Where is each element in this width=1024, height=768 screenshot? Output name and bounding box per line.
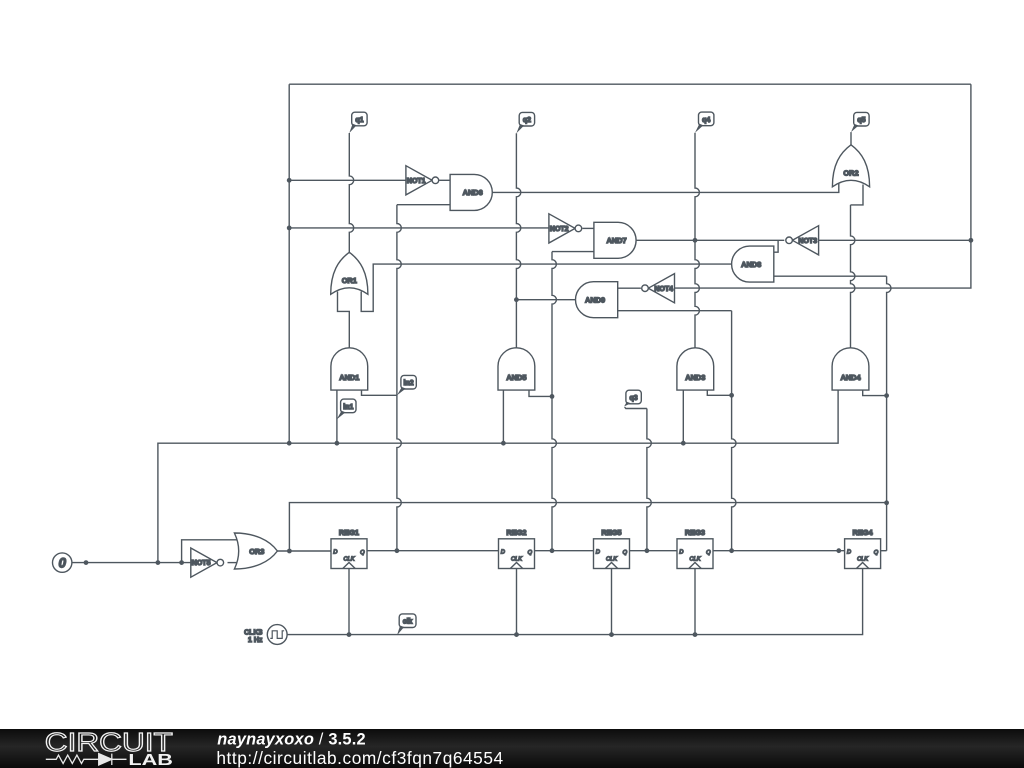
wire AND7 input2 / REG2.Q vertical: [552, 251, 594, 253]
logo resistor-diode squiggle: [46, 754, 127, 765]
svg-text:1 Hz: 1 Hz: [248, 637, 263, 644]
flag clk: [399, 614, 416, 628]
not-gate NOT1: [406, 166, 432, 195]
svg-text:REG1: REG1: [339, 528, 359, 537]
and-gate AND1: [331, 348, 368, 390]
svg-text:D: D: [333, 550, 337, 556]
wire AND8 output to OR1 input2: [361, 264, 731, 311]
wire bus to NOT2 input: [289, 227, 549, 229]
wire AND3 input2 hook: [707, 390, 731, 395]
svg-text:in1: in1: [343, 404, 353, 411]
wire NOT3 input to right border: [819, 239, 971, 241]
node 0 terminal: [53, 553, 72, 572]
svg-text:AND9: AND9: [585, 296, 605, 305]
svg-text:OR2: OR2: [843, 168, 858, 177]
svg-text:Q: Q: [360, 550, 365, 556]
svg-text:NOT2: NOT2: [550, 226, 569, 233]
wire AND9 output to q2 net: [516, 299, 575, 301]
not-gate NOT4: [648, 274, 674, 303]
wire AND7 output to NOT3 bubble: [636, 239, 784, 241]
node junction REG2.Q: [550, 548, 555, 553]
svg-text:NOT1: NOT1: [407, 178, 426, 185]
wire clk bus: [287, 569, 863, 635]
flag in2: [401, 375, 416, 389]
svg-text:clk: clk: [403, 619, 413, 626]
wire AND3 input1 drop: [682, 390, 684, 443]
wire REG5 clk drop: [611, 569, 613, 635]
svg-text:Q: Q: [623, 550, 628, 556]
node junction node0/OR3 bypass: [179, 560, 184, 565]
svg-text:http://circuitlab.com/cf3fqn7q: http://circuitlab.com/cf3fqn7q64554: [216, 748, 503, 768]
svg-text:D: D: [847, 550, 851, 556]
svg-text:AND6: AND6: [463, 188, 483, 197]
wire q1 net vertical to OR1 output: [349, 133, 353, 252]
svg-text:naynayxoxo / 3.5.2: naynayxoxo / 3.5.2: [217, 730, 365, 748]
svg-text:q5: q5: [857, 117, 865, 124]
not-gate NOT2: [549, 214, 575, 243]
or-gate OR3: [234, 533, 277, 569]
wire AND8 input2 / REG4.Q vertical: [774, 275, 887, 277]
wire REG1 clk drop: [348, 569, 350, 635]
svg-text:q4: q4: [702, 117, 710, 124]
svg-text:D: D: [679, 550, 683, 556]
flag q5: [854, 112, 869, 126]
wire OR3 output to REG1.D: [277, 550, 331, 552]
not-gate NOT3: [792, 226, 818, 255]
flip-flop REG1: [331, 539, 367, 569]
wire REG3.Q to REG4.D: [713, 550, 845, 552]
wire NOT5 output to OR3 input2: [228, 562, 241, 564]
wire bus502 OR3 output distribution: [289, 503, 886, 551]
node junction before REG4.D: [836, 548, 841, 553]
footer bar: [0, 729, 1024, 768]
node junction AND5 input2 tap: [550, 394, 555, 399]
svg-text:REG3: REG3: [685, 528, 705, 537]
svg-text:Q: Q: [528, 550, 533, 556]
svg-text:AND7: AND7: [606, 236, 626, 245]
node junction left-border/bus443: [287, 441, 292, 446]
wire q5 net to OR2 output: [850, 132, 852, 145]
wire NOT3 output jog to AND8 input1: [774, 240, 778, 252]
svg-text:CLK3: CLK3: [244, 629, 262, 636]
svg-text:0: 0: [58, 555, 66, 570]
flag q4: [699, 112, 714, 126]
and-gate AND9: [576, 282, 618, 318]
svg-text:q3: q3: [630, 395, 638, 402]
wire AND6 input2 / REG1.Q vertical: [397, 204, 450, 206]
node junction AND5 input1/bus443: [501, 441, 506, 446]
wire OR1 input1 from AND1 output: [338, 292, 350, 348]
wire REG2 clk drop: [516, 569, 518, 635]
node junction AND4 input2 tap: [884, 393, 889, 398]
wire AND1 input2 hook: [362, 390, 397, 395]
node junction bus502/REG4 net: [884, 500, 889, 505]
node junction node0/bus443 riser: [156, 560, 161, 565]
wire AND6 output to OR2 input1: [492, 184, 839, 193]
flip-flop REG3: [677, 539, 713, 569]
and-gate AND5: [498, 348, 535, 390]
svg-text:LAB: LAB: [128, 752, 173, 768]
node junction node0 stub: [84, 560, 89, 565]
flip-flop REG5: [594, 539, 630, 569]
not-gate NOT5: [191, 548, 217, 577]
wire NOT2 output to AND7 input1: [582, 227, 594, 229]
wire top bus: [289, 83, 971, 85]
node junction REG5 clk: [609, 632, 614, 637]
wire NOT1 output to AND6 input1: [439, 179, 450, 181]
node junction left-border/bus1: [287, 178, 292, 183]
flip-flop REG2: [499, 539, 535, 569]
node junction AND1 input1/bus443: [335, 441, 340, 446]
wire bus443 main: [158, 390, 838, 562]
svg-text:AND5: AND5: [506, 373, 526, 382]
wire AND1 input1 drop: [336, 390, 338, 443]
and-gate AND8: [732, 246, 774, 282]
wire REG3 clk drop: [694, 569, 696, 635]
svg-text:q2: q2: [523, 117, 531, 124]
svg-text:AND1: AND1: [339, 373, 359, 382]
node junction right-border/NOT3 input: [969, 238, 974, 243]
and-gate AND6: [450, 174, 492, 210]
node junction REG5.Q: [645, 548, 650, 553]
node junction REG2 clk: [514, 632, 519, 637]
svg-text:Q: Q: [706, 550, 711, 556]
svg-text:q1: q1: [355, 117, 363, 124]
svg-text:D: D: [501, 550, 505, 556]
svg-text:D: D: [596, 550, 600, 556]
wire AND5 input2 hook: [529, 390, 552, 396]
node junction REG1 clk: [347, 632, 352, 637]
svg-text:OR1: OR1: [342, 276, 357, 285]
or-gate OR2: [832, 145, 869, 187]
node junction REG3 clk: [693, 632, 698, 637]
svg-text:REG2: REG2: [506, 528, 526, 537]
wire AND9 input1 to NOT4 bubble: [618, 287, 641, 289]
flag q3: [626, 390, 641, 404]
svg-text:in2: in2: [404, 380, 414, 387]
wire OR3 input1 bypass: [182, 540, 240, 563]
and-gate AND7: [594, 222, 636, 258]
svg-text:NOT4: NOT4: [654, 286, 673, 293]
node junction AND9-out/q2 net: [514, 297, 519, 302]
svg-text:NOT5: NOT5: [192, 560, 211, 567]
and-gate AND4: [832, 348, 869, 390]
svg-text:AND3: AND3: [685, 373, 705, 382]
wire OR2 input2 from AND4 output: [851, 185, 864, 205]
node junction left-border/bus2: [287, 226, 292, 231]
svg-text:REG4: REG4: [853, 528, 874, 537]
wire REG1.Q to REG2.D: [367, 550, 499, 552]
svg-text:OR3: OR3: [249, 547, 264, 556]
node junction AND3 input2 tap: [729, 393, 734, 398]
wire q2 net vertical to AND5 output: [516, 133, 520, 348]
wire REG2.Q to REG5.D: [535, 550, 594, 552]
svg-text:AND8: AND8: [741, 260, 761, 269]
wire bus to NOT1 input: [289, 179, 406, 181]
wire AND9 input2 / REG3.Q vertical: [618, 310, 732, 312]
svg-text:NOT3: NOT3: [798, 238, 817, 245]
clock source CLK3 symbol: [267, 625, 287, 645]
wire AND4 input2 hook: [863, 390, 887, 396]
node junction REG3.Q: [729, 548, 734, 553]
svg-text:Q: Q: [874, 550, 879, 556]
svg-text:AND4: AND4: [840, 373, 861, 382]
node junction AND3 input1/bus443: [681, 441, 686, 446]
svg-text:REG5: REG5: [601, 528, 621, 537]
wire AND5 input1 drop: [502, 390, 504, 443]
wire q3 net to REG5.Q: [625, 407, 647, 409]
flag q1: [352, 112, 367, 126]
node junction REG1.Q: [395, 548, 400, 553]
or-gate OR1: [331, 252, 368, 294]
node junction AND7-out/q4 net: [693, 238, 698, 243]
wire REG5.Q to REG3.D: [630, 550, 678, 552]
wire left border vertical: [288, 84, 290, 443]
wire q4 net vertical to AND3 output: [695, 133, 699, 348]
flip-flop REG4: [845, 539, 881, 569]
wire right border vertical + NOT4 feed: [675, 84, 971, 288]
node junction OR3 output: [287, 549, 292, 554]
wire node0 horizontal: [72, 562, 191, 564]
and-gate AND3: [677, 348, 714, 390]
flag q2: [519, 112, 534, 126]
flag in1: [341, 399, 356, 413]
